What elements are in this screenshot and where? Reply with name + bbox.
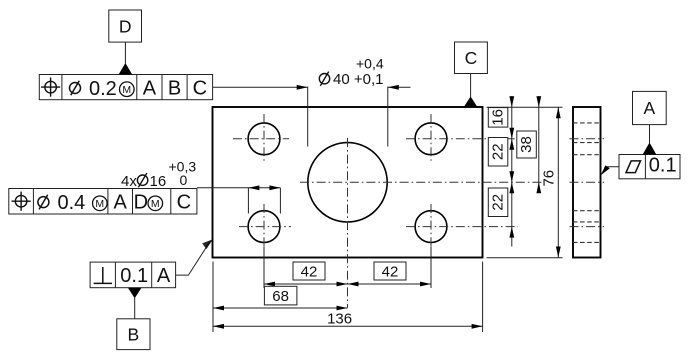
svg-text:0: 0 [180, 172, 188, 188]
datum D label [109, 10, 142, 75]
value label Ø40 [319, 56, 384, 89]
value box 22 lower [488, 188, 508, 217]
part front view outline [213, 107, 483, 258]
svg-text:38: 38 [518, 136, 535, 153]
dimension 136 [213, 325, 483, 327]
value box 16 [488, 108, 508, 128]
FCF1 position Ø0.2 M | A | B | C [39, 75, 212, 100]
centerline top-right vertical [430, 114, 432, 163]
FCF2 position Ø0.4 M | A | D M | C [9, 189, 197, 215]
flatness symbol [626, 161, 641, 173]
diameter symbol [38, 197, 49, 208]
hole Ø16 bottom-left [248, 211, 280, 243]
FCF3 perpendicularity 0.1 | A [90, 262, 176, 288]
centerline Ø40 horizontal [300, 181, 544, 183]
dimension 42 right [348, 283, 432, 285]
svg-text:A: A [643, 98, 655, 118]
centerline top-left horizontal [233, 138, 289, 140]
value box 22 upper [488, 138, 508, 167]
leader FCF4 to side view right edge [603, 167, 619, 172]
svg-text:68: 68 [272, 288, 289, 305]
svg-text:M: M [151, 198, 160, 210]
leader FCF3 to part left edge [176, 242, 210, 276]
value box 38 [517, 131, 537, 158]
right side: extension line bottom edge [487, 257, 563, 259]
svg-text:0.1: 0.1 [120, 265, 148, 287]
dimension 42 left [264, 283, 348, 285]
svg-text:D: D [119, 17, 132, 37]
svg-text:A: A [157, 265, 171, 287]
svg-text:42: 42 [301, 263, 318, 280]
value label 4x Ø16 [121, 159, 196, 190]
hole Ø16 top-right [415, 123, 447, 155]
side view centerlines [570, 138, 605, 140]
svg-text:C: C [193, 77, 207, 99]
bottom: extension lines [212, 262, 214, 333]
svg-text:4x: 4x [121, 173, 137, 190]
dimension 38 line [538, 96, 540, 193]
svg-text:0.4: 0.4 [58, 192, 86, 214]
svg-text:40 +0,1: 40 +0,1 [333, 71, 383, 88]
svg-text:76: 76 [541, 170, 558, 187]
dimension 4x Ø16: extension lines [247, 188, 249, 214]
hole Ø16 top-left [248, 123, 280, 155]
datum A label [633, 91, 667, 154]
diameter symbol [70, 83, 81, 94]
right side: extension line top edge [487, 106, 563, 108]
dimension 76 line [557, 107, 559, 257]
centerline bottom-left horizontal [239, 226, 291, 228]
centerline bottom-right horizontal [406, 226, 518, 228]
centerline bottom-right vertical [430, 204, 432, 251]
dimension 4x Ø16: leader from FCF2 + arrows [197, 187, 281, 189]
svg-text:0.1: 0.1 [649, 155, 677, 177]
svg-text:C: C [177, 191, 191, 213]
svg-text:42: 42 [382, 263, 399, 280]
hole Ø16 bottom-right [415, 211, 447, 243]
side view outline [573, 107, 601, 258]
centerline top-left vertical [263, 114, 265, 163]
svg-text:136: 136 [327, 311, 352, 328]
svg-text:+0,4: +0,4 [356, 56, 384, 72]
svg-text:16: 16 [150, 173, 167, 190]
perpendicularity symbol [102, 267, 104, 283]
dimension Ø40: extension lines [307, 87, 309, 147]
svg-text:C: C [465, 48, 478, 68]
svg-text:M: M [122, 84, 131, 96]
hole Ø40 center [308, 143, 387, 222]
datum B label [117, 288, 150, 350]
position symbol [45, 81, 57, 93]
svg-text:A: A [143, 77, 157, 99]
svg-text:0.2: 0.2 [89, 78, 117, 100]
position symbol [15, 195, 27, 207]
svg-text:A: A [114, 191, 128, 213]
svg-text:22: 22 [490, 194, 507, 211]
svg-text:M: M [95, 198, 104, 210]
datum C label [455, 42, 488, 107]
FCF4 flatness 0.1 [619, 155, 680, 179]
centerline top-right horizontal [406, 138, 518, 140]
dimension chain 16/22/22 line [511, 96, 513, 247]
svg-text:B: B [128, 325, 140, 345]
dimension Ø40: leader from FCF1 + dim line [213, 86, 308, 88]
centerline bottom-left vertical [263, 204, 265, 251]
side view hidden lines [573, 122, 601, 124]
centerline Ø40 vertical [347, 138, 349, 308]
dimension 68 [213, 307, 348, 309]
svg-text:16: 16 [490, 109, 507, 126]
svg-text:B: B [168, 77, 181, 99]
svg-text:22: 22 [490, 143, 507, 160]
svg-text:D: D [134, 191, 148, 213]
